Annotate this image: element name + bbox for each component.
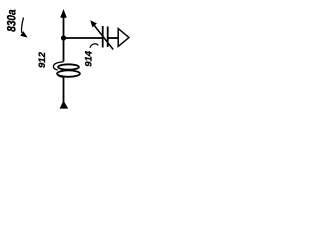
leader arrow from 830a to circuit xyxy=(21,18,23,34)
variable-capacitor diagonal arrow shaft xyxy=(94,25,114,50)
arrowhead of 830a leader (points down-right) xyxy=(20,31,28,37)
wire: from capacitor to output arrow xyxy=(108,37,118,39)
svg-text:912: 912 xyxy=(37,51,48,68)
svg-text:830a: 830a xyxy=(6,9,19,31)
wire: vertical below inductor xyxy=(63,77,65,103)
variable-capacitor arrowhead (points up-left) xyxy=(90,20,97,27)
arrowhead at top of vertical wire xyxy=(60,9,67,18)
wire: horizontal from junction to capacitor xyxy=(64,37,103,39)
capacitor 914 right plate xyxy=(107,27,109,48)
wire: main vertical net xyxy=(63,16,65,62)
capacitor 914 left plate xyxy=(102,26,104,48)
node junction dot xyxy=(61,35,66,40)
svg-text:914: 914 xyxy=(84,50,95,67)
terminal triangle at bottom of vertical wire xyxy=(60,101,69,109)
open arrow (port) at right xyxy=(118,29,129,47)
leader from label 914 to capacitor xyxy=(90,44,99,48)
inductor L 912 (coil) xyxy=(53,62,79,77)
